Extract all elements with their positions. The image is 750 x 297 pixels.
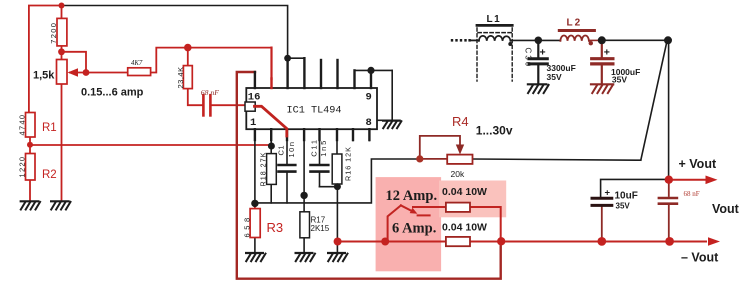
svg-text:IC1 TL494: IC1 TL494 (287, 106, 342, 117)
svg-text:C11: C11 (310, 138, 319, 157)
svg-text:23,4K: 23,4K (176, 66, 185, 88)
svg-text:7200: 7200 (49, 22, 58, 44)
svg-text:20k: 20k (451, 169, 465, 179)
svg-text:C1: C1 (277, 145, 286, 156)
svg-text:1220: 1220 (18, 156, 27, 178)
svg-text:9: 9 (366, 92, 372, 104)
svg-text:4K7: 4K7 (131, 60, 143, 67)
svg-text:1n5: 1n5 (319, 139, 328, 157)
svg-text:1...30v: 1...30v (476, 124, 513, 138)
svg-text:4740: 4740 (18, 114, 27, 136)
svg-text:L1: L1 (487, 14, 502, 25)
svg-text:– Vout: – Vout (681, 251, 719, 265)
svg-text:0.04 10W: 0.04 10W (442, 222, 487, 234)
svg-text:0.04 10W: 0.04 10W (442, 186, 487, 198)
svg-text:R16 12K: R16 12K (344, 146, 353, 181)
svg-text:R18 27K: R18 27K (259, 152, 268, 187)
svg-text:R3: R3 (267, 220, 284, 235)
svg-text:+: + (604, 47, 610, 59)
svg-text:1: 1 (250, 117, 256, 129)
svg-text:R1: R1 (42, 122, 57, 134)
svg-text:35V: 35V (616, 202, 631, 211)
svg-text:R4: R4 (452, 114, 469, 129)
svg-text:0.15...6 amp: 0.15...6 amp (81, 87, 144, 99)
svg-text:6 Amp.: 6 Amp. (392, 221, 436, 237)
svg-text:658: 658 (243, 214, 252, 237)
svg-text:L2: L2 (567, 18, 583, 29)
svg-text:Vout: Vout (712, 202, 740, 216)
svg-text:16: 16 (248, 92, 261, 104)
svg-text:8: 8 (366, 117, 372, 129)
svg-text:1,5k: 1,5k (33, 70, 55, 82)
svg-text:68 nF: 68 nF (684, 190, 700, 198)
svg-text:+ Vout: + Vout (679, 157, 717, 171)
svg-text:35V: 35V (612, 75, 627, 85)
svg-text:R2: R2 (42, 169, 57, 181)
svg-text:2K15: 2K15 (311, 224, 330, 233)
svg-text:+: + (605, 188, 611, 199)
svg-text:35V: 35V (547, 72, 562, 82)
svg-text:10n: 10n (287, 140, 296, 157)
svg-text:+: + (540, 47, 546, 59)
svg-text:10uF: 10uF (615, 191, 638, 202)
svg-text:12 Amp.: 12 Amp. (386, 188, 438, 204)
svg-text:68 nF: 68 nF (201, 88, 219, 97)
svg-text:C30: C30 (524, 48, 533, 69)
